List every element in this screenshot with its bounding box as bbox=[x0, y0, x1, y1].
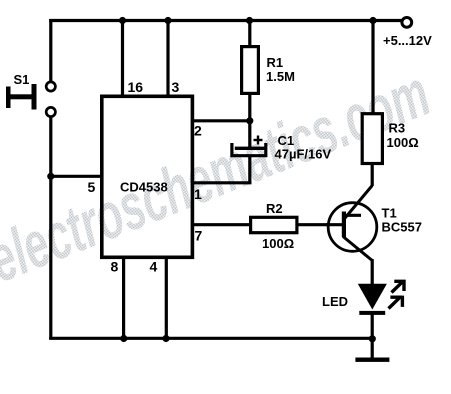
node pin3 rail junction bbox=[164, 17, 171, 24]
svg-text:4: 4 bbox=[150, 259, 158, 275]
capacitor C1 bbox=[232, 121, 266, 184]
svg-text:CD4538: CD4538 bbox=[120, 180, 168, 195]
svg-text:16: 16 bbox=[128, 79, 144, 95]
IC U1 CD4538 bbox=[102, 96, 193, 257]
wire LED to ground node bbox=[371, 314, 374, 339]
svg-text:R1: R1 bbox=[267, 55, 284, 70]
svg-text:100Ω: 100Ω bbox=[387, 135, 419, 150]
svg-text:2: 2 bbox=[194, 123, 202, 139]
svg-text:LED: LED bbox=[322, 294, 348, 309]
wire pin 5 bbox=[51, 175, 102, 178]
wire R2 to base bbox=[297, 223, 343, 226]
pushbutton S1 bbox=[6, 82, 55, 117]
svg-text:S1: S1 bbox=[14, 72, 30, 87]
resistor R2 bbox=[251, 217, 297, 232]
wire pin 16 bbox=[121, 21, 124, 97]
svg-text:100Ω: 100Ω bbox=[262, 236, 294, 251]
node S1/pin5 junction bbox=[47, 173, 54, 180]
svg-text:1: 1 bbox=[194, 186, 202, 202]
svg-text:8: 8 bbox=[111, 259, 119, 275]
wire pin 3 bbox=[166, 21, 169, 97]
node pin8 rail junction bbox=[120, 335, 127, 342]
power terminal bbox=[402, 18, 412, 28]
resistor R1 bbox=[242, 21, 259, 122]
wire pin 2 bbox=[191, 119, 251, 122]
node R3 rail junction bbox=[369, 17, 376, 24]
svg-text:R3: R3 bbox=[389, 121, 406, 136]
wire pin 1 bbox=[191, 181, 251, 184]
node LED/ground junction bbox=[369, 335, 376, 342]
wire collector to LED bbox=[371, 259, 374, 285]
wire pin 4 bbox=[165, 257, 168, 338]
svg-text:3: 3 bbox=[172, 79, 180, 95]
svg-text:1.5M: 1.5M bbox=[266, 69, 295, 84]
wire left rail upper bbox=[49, 19, 52, 82]
node pin2/R1/C1 junction bbox=[246, 117, 253, 124]
svg-text:BC557: BC557 bbox=[382, 220, 422, 235]
node pin16 rail junction bbox=[119, 17, 126, 24]
wire top rail (+V) bbox=[49, 19, 402, 22]
LED D1 bbox=[358, 280, 406, 315]
node pin4 rail junction bbox=[162, 335, 169, 342]
wire pin 7 bbox=[191, 223, 250, 226]
wire bottom rail bbox=[49, 337, 372, 340]
svg-text:5: 5 bbox=[88, 179, 96, 195]
node R1 rail junction bbox=[246, 17, 253, 24]
resistor R3 bbox=[362, 21, 382, 187]
svg-text:+5...12V: +5...12V bbox=[383, 33, 432, 48]
transistor T1 BC557 bbox=[326, 186, 377, 261]
svg-text:T1: T1 bbox=[382, 206, 397, 221]
ground bbox=[355, 339, 389, 362]
svg-text:47µF/16V: 47µF/16V bbox=[275, 147, 332, 162]
wire pin 8 bbox=[122, 257, 125, 338]
svg-text:7: 7 bbox=[195, 228, 203, 244]
wire left rail lower bbox=[49, 117, 52, 340]
svg-text:R2: R2 bbox=[266, 201, 283, 216]
